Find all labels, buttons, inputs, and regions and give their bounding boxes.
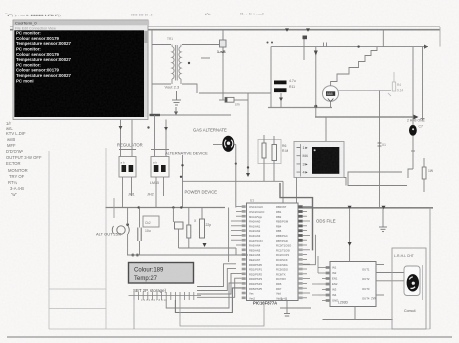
resistor R2 <box>219 97 248 106</box>
wire: LCD data bus L3 <box>197 273 242 294</box>
wire: display feed drop <box>325 117 327 142</box>
wire: right mid vertical <box>379 91 381 208</box>
capacitor C1 <box>274 81 287 85</box>
wire: far right vertical <box>422 47 424 121</box>
wire: sounder drop <box>127 208 129 256</box>
rectifier D2 module <box>151 157 169 178</box>
junction triangles on top rail <box>285 28 289 31</box>
junction arrows on lower rail <box>348 206 352 210</box>
driver U2 body <box>330 262 376 307</box>
wire: MCU right stubs <box>303 207 312 298</box>
resistor R4 <box>272 145 277 161</box>
display pin header <box>300 144 302 177</box>
driver pin labels <box>332 266 370 303</box>
wire: speaker leads <box>213 145 236 208</box>
wire: MCU feed from rail <box>228 208 230 263</box>
wire: rail drop to L293 <box>349 208 351 262</box>
wire: cap leads <box>139 208 141 256</box>
wire: MCU left stubs <box>231 207 242 245</box>
wire: MCU bottom drop <box>280 301 311 317</box>
resistor R8 faint <box>388 72 396 96</box>
junction arrow on supply rail <box>174 112 178 116</box>
wire: driver ground link <box>323 307 393 320</box>
wire: meter staircase to top right <box>331 47 377 86</box>
wire: driver left stubs <box>318 268 330 301</box>
wire: LCD data bus L1 <box>197 264 236 287</box>
junction dot <box>188 62 190 64</box>
rectifier D1 module <box>119 157 136 178</box>
wire: LCD data bus L6 <box>175 288 241 313</box>
toolbar marks <box>4 12 264 19</box>
wire: upper distribution rail <box>267 36 429 118</box>
junction arrow below capacitors <box>279 98 283 102</box>
junction dot at sounder <box>126 223 129 226</box>
crystal X1 <box>194 219 211 247</box>
wire: power device link <box>183 180 284 182</box>
wire: resistor drops <box>264 135 274 181</box>
ground below transformer <box>172 91 181 115</box>
wire: sensor drop to mid rail <box>199 30 271 100</box>
wire: LCD data bus L4 <box>197 278 242 297</box>
wire: motor box inner line <box>422 265 424 300</box>
wire: center distribution vertical <box>182 155 184 208</box>
MCU pin number pads <box>242 205 303 299</box>
wire: heavy mid-right rail <box>315 116 414 118</box>
wire: right drop from top rail <box>382 30 384 47</box>
speaker LS1 <box>222 136 234 152</box>
sounder LS3 <box>112 226 129 234</box>
junction arrow <box>246 173 250 177</box>
wire: lower horizontal of supply section <box>150 114 231 116</box>
box component K1 <box>143 216 159 227</box>
wire: file box routing <box>280 183 315 265</box>
wire: LCD data bus L2 <box>197 269 236 291</box>
sensor U3 one-wire <box>220 33 227 56</box>
capacitor C2 <box>274 88 287 92</box>
capacitor C4 <box>138 228 141 242</box>
wire: display pins to left bus <box>297 148 347 208</box>
sheet left margin columns <box>49 148 430 329</box>
ground right <box>379 227 387 232</box>
MCU pin rows <box>249 205 291 300</box>
sheet bottom border line <box>7 336 452 338</box>
junction dot on rectifier feed <box>147 126 149 128</box>
wire: stepped bus to motor area <box>348 169 413 186</box>
motor box <box>392 248 426 329</box>
wire: osc rail <box>127 208 248 257</box>
terminal window <box>13 20 149 120</box>
wire: buzzer leads <box>411 47 415 170</box>
display U4 frame <box>294 142 344 178</box>
transformer TR1 <box>172 45 181 85</box>
sheet top border line (double) <box>10 27 440 47</box>
buzzer LS2 <box>409 125 417 136</box>
MCU U1 body <box>247 203 299 301</box>
LCD LCD1 screen <box>129 263 194 284</box>
wire: LCD data bus L5 <box>166 283 242 308</box>
wire: rectifier feeds <box>119 115 169 208</box>
junction dots on lower rail <box>138 206 140 208</box>
wire: caps left bus <box>271 47 281 108</box>
resistor R7 <box>187 225 191 238</box>
wire: rail end drop right <box>429 208 431 329</box>
left legend text block <box>6 121 42 197</box>
junction dot on speaker net <box>235 163 237 165</box>
wire: mid rail right portion <box>268 107 332 109</box>
wire: main lower rail left segment <box>106 207 226 209</box>
crossing mark X1 <box>378 143 382 146</box>
display U4 screen <box>312 147 339 174</box>
wire: rail drop to ground <box>382 208 384 227</box>
wire: LCD left drop <box>133 300 135 329</box>
wire: main lower rail right segment <box>298 207 433 209</box>
motor M2 <box>404 266 420 296</box>
wire: transformer primary leads <box>152 45 219 94</box>
meter M1 <box>323 86 392 108</box>
LCD pin row <box>129 292 202 300</box>
resistor network box <box>258 140 281 164</box>
resistor R9 <box>422 158 434 192</box>
junction dot on mid rail <box>314 105 317 108</box>
crystal X2 <box>175 222 184 229</box>
wire: center vertical from supply <box>247 93 249 176</box>
wire: top-left vertical feeder <box>151 30 153 115</box>
junction arrow at rail end <box>414 115 419 120</box>
driver left pin pads <box>326 266 330 302</box>
capacitor labels <box>289 79 296 89</box>
wire: driver outputs to motor <box>376 265 404 296</box>
resistor R3 <box>262 143 266 158</box>
wire: lower link to driver <box>180 300 264 326</box>
junction dots on center vertical <box>181 164 183 166</box>
